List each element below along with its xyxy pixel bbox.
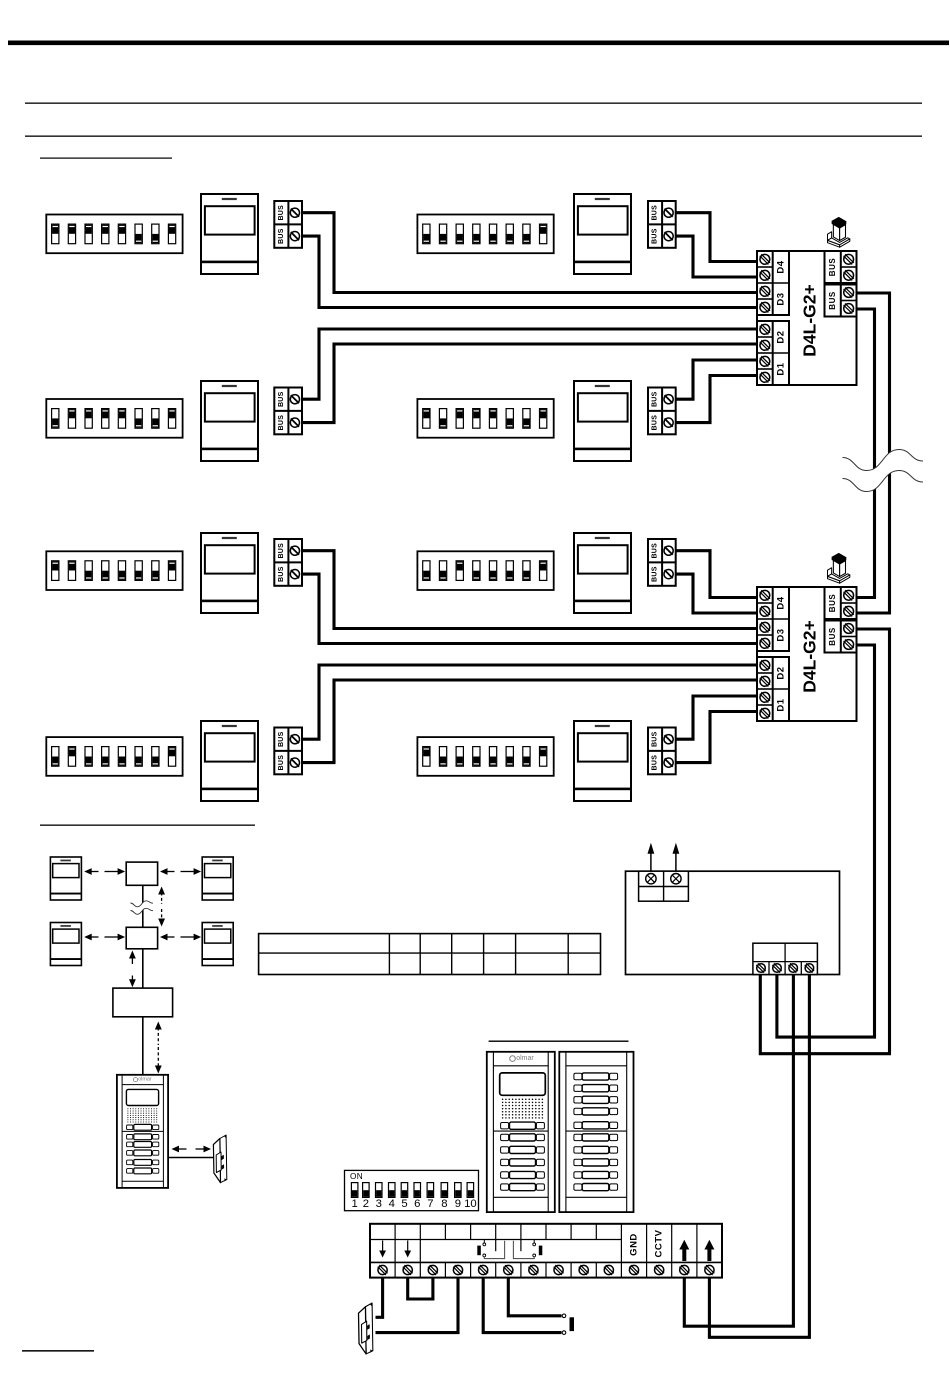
svg-text:BUS: BUS — [278, 755, 285, 771]
arrow down into panel — [155, 1047, 162, 1074]
distributor U1 D4L-G2+ body — [757, 251, 857, 385]
monitor row1 middle — [574, 194, 631, 274]
monitor row3 middle — [574, 533, 631, 613]
svg-text:2: 2 — [363, 1198, 369, 1210]
jumper J1 (on U1 BUS) — [828, 217, 850, 247]
arrow down to PSU — [129, 976, 136, 988]
U2 right BUS terminal block (upper) — [825, 587, 857, 619]
arrow A1 to box1 (left) — [84, 868, 98, 875]
BUS terminal block row2 left — [274, 388, 302, 435]
right module call buttons — [574, 1073, 618, 1191]
U1 right BUS terminal block (lower) — [825, 285, 857, 317]
BUS terminal block row4 middle — [648, 728, 676, 775]
monitor apartment B1 — [50, 923, 81, 966]
arrow A1 to box1 (right) — [105, 868, 126, 875]
monitor row4 left — [201, 721, 258, 801]
svg-text:BUS: BUS — [828, 627, 837, 646]
wire row4 mid BUS s1 to D1.1 — [676, 696, 759, 739]
wire row4 mid BUS s2 to D1.2 — [676, 712, 759, 763]
wire row1 mid BUS s1 to M1 D4.1 — [676, 213, 759, 262]
power supply unit box — [626, 871, 840, 974]
svg-text:9: 9 — [455, 1198, 461, 1210]
monitor row4 middle — [574, 721, 631, 801]
svg-text:BUS: BUS — [652, 755, 659, 771]
cable break risers — [843, 450, 924, 492]
riser wire box2 to power supply — [142, 949, 144, 988]
wire strip terminal 2-3 jumper — [408, 1275, 433, 1299]
svg-text:7: 7 — [427, 1198, 433, 1210]
push-button symbol left (lock release) — [477, 1240, 504, 1259]
svg-text:BUS: BUS — [652, 205, 659, 221]
svg-text:BUS: BUS — [652, 415, 659, 431]
BUS terminal block row4 left — [274, 728, 302, 775]
wire row3 mid BUS s1 to M2 D4.1 — [676, 551, 759, 598]
wire D2.1 to row4 left BUS s1 — [302, 665, 759, 739]
dip-switch block row4 left — [46, 737, 182, 776]
wire M1 BUS out s3 to M2 BUS in s2 (riser right) — [855, 293, 890, 613]
power supply box (mini) — [113, 988, 173, 1017]
svg-text:D4: D4 — [775, 260, 786, 273]
svg-text:BUS: BUS — [828, 594, 837, 613]
street panel right module — [559, 1052, 633, 1212]
dip-switch block row1 left — [46, 215, 182, 254]
svg-text:BUS: BUS — [652, 566, 659, 582]
wire M2 BUS out s4 down to PSU terminal 2 — [777, 645, 875, 1037]
svg-text:D4L-G2+: D4L-G2+ — [800, 620, 820, 692]
wire strip terminal 1 to door strike — [376, 1275, 383, 1317]
svg-text:BUS: BUS — [828, 291, 837, 310]
svg-text:BUS: BUS — [278, 228, 285, 244]
svg-text:BUS: BUS — [278, 415, 285, 431]
wire row1 left BUS s2 to D3.2 — [302, 236, 759, 307]
svg-text:BUS: BUS — [652, 731, 659, 747]
monitor row2 middle — [574, 381, 631, 461]
wire strip terminal 5 to push button — [483, 1275, 561, 1333]
PSU mains terminal block — [639, 871, 689, 901]
footer short rule — [22, 1350, 94, 1352]
floor junction box 1 — [126, 862, 157, 885]
wire PSU terminal 4 to strip terminal 14 — [709, 972, 809, 1337]
wire M1 BUS out s4 to M2 BUS in s1 (riser left) — [855, 309, 875, 598]
monitor apartment A1 — [50, 857, 81, 900]
door strike S2 (street door) — [359, 1303, 373, 1354]
U1 left terminal block D2/D1 — [757, 321, 789, 385]
arrow box2 to B2 (right) — [181, 934, 202, 941]
wire row3 left BUS s2 to D3.2 — [302, 574, 759, 643]
arrow box2 to B2 (left) — [160, 934, 175, 941]
U2 left terminal block D2/D1 — [757, 657, 789, 721]
strip col13 bus up arrow — [679, 1240, 689, 1261]
dip-switch block row3 left — [46, 551, 182, 590]
svg-text:1: 1 — [352, 1198, 358, 1210]
svg-text:BUS: BUS — [278, 205, 285, 221]
arrow box1 to A2 (left) — [160, 868, 175, 875]
push-button symbol right (lock release) — [513, 1240, 542, 1259]
street door panel (mini) — [117, 1075, 168, 1188]
BUS terminal block row1 left — [274, 201, 302, 248]
riser wire PSU to street panel — [142, 1017, 144, 1075]
arrow riser up (box1) — [158, 887, 165, 905]
wire D2.2 to row4 left BUS s2 — [302, 680, 759, 763]
relay contact stubs — [496, 1240, 521, 1252]
wire D2.2 to row2 left BUS s2 — [302, 344, 759, 423]
arrow box1 to A2 (right) — [181, 868, 202, 875]
svg-text:BUS: BUS — [278, 566, 285, 582]
wire D2.1 to row2 left BUS s1 — [302, 329, 759, 399]
svg-text:BUS: BUS — [278, 543, 285, 559]
wire row3 mid BUS s2 to D4.2 — [676, 574, 759, 613]
svg-text:3: 3 — [376, 1198, 382, 1210]
arrow PSU mains L — [648, 843, 655, 871]
svg-text:BUS: BUS — [652, 543, 659, 559]
svg-text:D2: D2 — [775, 666, 786, 679]
exit push button — [562, 1314, 574, 1334]
dip-switch block row2 middle — [417, 399, 553, 438]
arrow up into PSU — [155, 1022, 162, 1046]
arrow B1 to box2 (left) — [84, 934, 98, 941]
wire row3 left BUS s1 to D3.1 — [302, 551, 759, 629]
svg-text:D1: D1 — [775, 698, 786, 711]
wire M2 BUS out s3 down to PSU terminal 1 — [760, 629, 889, 1054]
BUS terminal block row3 middle — [648, 539, 676, 586]
cable distances table — [259, 934, 601, 975]
svg-text:4: 4 — [389, 1198, 395, 1210]
svg-text:GND: GND — [629, 1233, 640, 1256]
svg-text:BUS: BUS — [278, 391, 285, 407]
monitor row3 left — [201, 533, 258, 613]
header rule 3 — [25, 136, 922, 137]
street panel programming dip-switch SW1 — [345, 1170, 479, 1210]
svg-text:10: 10 — [464, 1198, 477, 1210]
header thick rule — [8, 41, 949, 46]
svg-text:D3: D3 — [775, 628, 786, 641]
wire row2 mid BUS s2 to D1.2 — [676, 376, 759, 423]
svg-text:CCTV: CCTV — [654, 1229, 665, 1257]
wire row2 mid BUS s1 to D1.1 — [676, 360, 759, 399]
BUS terminal block row2 middle — [648, 388, 676, 435]
svg-text:olmar: olmar — [516, 1055, 534, 1062]
street panel left module — [487, 1052, 555, 1212]
strip screws — [378, 1265, 715, 1275]
U2 right BUS terminal block (lower) — [825, 621, 857, 653]
riser wire box1 to box2 — [142, 885, 144, 927]
floor junction box 2 — [126, 927, 157, 949]
dip-switch block row4 middle — [417, 737, 553, 776]
arrow strip col2 output down — [404, 1241, 411, 1258]
distributor U2 D4L-G2+ body — [757, 587, 857, 721]
U1 left terminal block D4/D3 — [757, 251, 789, 315]
street panel top rule — [489, 1041, 629, 1042]
wire strip terminal 6 to push button — [508, 1275, 561, 1316]
dip-switch block row1 middle — [417, 215, 553, 254]
wire panel to strike — [168, 1157, 214, 1159]
svg-text:D2: D2 — [775, 330, 786, 343]
wire row1 left BUS s1 to D3.1 — [302, 213, 759, 293]
svg-text:BUS: BUS — [278, 731, 285, 747]
arrow up into box2 — [129, 951, 136, 965]
svg-text:5: 5 — [401, 1198, 407, 1210]
arrow panel to strike (left) — [172, 1146, 187, 1153]
PSU output terminal block — [753, 943, 818, 974]
svg-text:BUS: BUS — [828, 258, 837, 277]
svg-text:6: 6 — [414, 1198, 420, 1210]
wire row1 mid BUS s2 to D4.2 — [676, 236, 759, 277]
U2 left terminal block D4/D3 — [757, 587, 789, 651]
jumper J2 (on U2 BUS) — [828, 553, 850, 583]
svg-text:olmar: olmar — [138, 1077, 152, 1083]
monitor apartment B2 — [202, 923, 233, 966]
header rule 2 — [25, 103, 922, 104]
strip col14 bus up arrow — [704, 1240, 714, 1261]
svg-text:D1: D1 — [775, 362, 786, 375]
dip-switch block row2 left — [46, 399, 182, 438]
svg-text:D3: D3 — [775, 292, 786, 305]
BUS terminal block row1 middle — [648, 201, 676, 248]
cable break mini riser — [131, 901, 154, 915]
arrow panel to strike (right) — [196, 1146, 212, 1153]
section title underline — [40, 158, 172, 159]
svg-text:ON: ON — [350, 1172, 363, 1181]
svg-text:8: 8 — [441, 1198, 447, 1210]
monitor apartment A2 — [202, 857, 233, 900]
dip-switch block row3 middle — [417, 551, 553, 590]
left module call buttons — [501, 1122, 545, 1191]
monitor row2 left — [201, 381, 258, 461]
door strike S1 (mini) — [213, 1135, 226, 1183]
arrow PSU mains N — [673, 843, 680, 871]
arrow B1 to box2 (right) — [105, 934, 126, 941]
svg-text:D4L-G2+: D4L-G2+ — [800, 284, 820, 356]
arrow strip col1 output down — [379, 1241, 386, 1258]
arrow riser down (box2) — [158, 909, 165, 927]
svg-text:BUS: BUS — [652, 391, 659, 407]
wire strip terminal 4 to door strike — [376, 1275, 459, 1333]
section divider line — [40, 825, 255, 826]
svg-text:BUS: BUS — [652, 228, 659, 244]
wire PSU terminal 3 to strip terminal 13 — [684, 972, 793, 1326]
svg-text:D4: D4 — [775, 596, 786, 609]
street panel terminal strip — [370, 1224, 722, 1278]
BUS terminal block row3 left — [274, 539, 302, 586]
U1 right BUS terminal block (upper) — [825, 251, 857, 283]
monitor row1 left — [201, 194, 258, 274]
